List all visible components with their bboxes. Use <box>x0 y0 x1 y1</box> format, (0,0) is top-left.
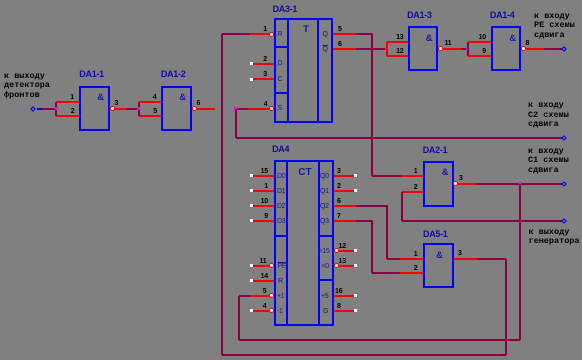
wire junction to DA3-1 S pin <box>237 108 249 110</box>
pin 2 wire DA5-1 <box>400 272 423 274</box>
junction DA1-3 input branch <box>385 47 388 50</box>
pin 1 wire DA5-1 <box>400 258 423 260</box>
and gate DA5-1 <box>423 243 454 288</box>
pin number 4 DA3-1 <box>246 101 268 108</box>
feedback wire down <box>519 184 521 340</box>
wire DA3-1 Q to DA2-1 input 1 <box>356 33 373 35</box>
output pin 8 wire DA1-4 <box>526 48 544 50</box>
pin number 1 DA3-1 <box>245 26 267 33</box>
pin number 4 DA4 <box>245 303 267 310</box>
pin number 3 DA1-1 <box>115 100 119 107</box>
pin number 2 DA5-1 <box>396 265 418 272</box>
wire DA4 Q3 to DA5-1 input 2 <box>356 220 373 222</box>
pin 5 wire DA1-2 <box>139 115 162 117</box>
pin 1 wire DA2-1 <box>401 175 423 177</box>
counter DA4 <box>274 160 334 326</box>
pin 9 wire DA1-4 <box>468 55 490 57</box>
pin number 13 DA4 <box>339 258 346 265</box>
pin 2 wire DA2-1 <box>402 191 423 193</box>
pin 6 Q2 wire DA4 <box>334 205 356 207</box>
vertical rail x=505.5 up to DA5-1 output <box>505 259 507 355</box>
nand gate DA1-4 <box>491 26 522 71</box>
pin number 5 DA1-2 <box>135 108 157 115</box>
pin number 15 DA4 <box>246 168 268 175</box>
pin 4 wire DA1-2 <box>139 101 162 103</box>
T flip-flop DA3-1 <box>274 18 334 123</box>
output bubble DA1-2 pin 6 <box>192 106 197 111</box>
pin 13 <0 stub DA4 <box>334 263 339 268</box>
node label: к входу PE схемы сдвига <box>534 12 575 41</box>
pin 11 PE stub DA4 <box>250 264 253 267</box>
pin number 9 DA4 <box>246 213 268 220</box>
junction at DA1-1 input branch <box>55 107 58 110</box>
pin 8 G stub DA4 <box>334 310 354 312</box>
C1 terminal lead <box>561 183 563 185</box>
pin number 14 DA4 <box>246 273 268 280</box>
pin number 2 DA1-1 <box>53 108 75 115</box>
pin 10 D2 stub DA4 <box>250 204 253 207</box>
terminal к выходу генератора <box>561 218 567 224</box>
output pin 6 wire DA1-2 <box>197 108 216 110</box>
pin number 12 DA1-3 <box>382 48 404 55</box>
pin 13 wire DA1-3 <box>387 41 408 43</box>
input branch wire DA1-3 <box>386 42 388 57</box>
terminal к входу С1 схемы сдвига <box>561 181 567 187</box>
node label: к выходу генератора <box>529 228 580 247</box>
pin 7 Q3 wire DA4 <box>334 220 357 222</box>
output bubble DA2-1 pin 3 <box>453 181 458 186</box>
wire DA1-3 output to DA1-4 input branch <box>461 48 466 50</box>
node label: к входу С1 схемы сдвига <box>528 147 569 176</box>
pin 9 D3 stub DA4 <box>250 219 253 222</box>
nand gate DA1-2 <box>161 86 192 132</box>
nand gate DA1-3 <box>408 26 439 71</box>
pin number 1 DA2-1 <box>396 168 418 175</box>
pin number 1 DA1-1 <box>52 94 74 101</box>
pin 1 R wire DA3-1 <box>269 32 274 37</box>
input branch wire DA1-4 <box>467 42 469 57</box>
node label: к выходу детектора фронтов <box>4 72 50 101</box>
junction C1 / +1 feedback <box>519 182 522 185</box>
wire DA1-4 output to PE terminal <box>544 48 561 50</box>
wire DA2-1 output to C1 terminal and DA4 +1 <box>476 183 519 185</box>
pin 1 D1 stub DA4 <box>250 189 253 192</box>
pin number 11 DA1-3 <box>445 40 452 47</box>
pin number 6 DA1-2 <box>197 100 201 107</box>
wire DA5-1 output to right rail <box>477 258 506 260</box>
feedback wire up to DA4 +1 <box>238 296 240 341</box>
output pin 3 wire DA1-1 <box>115 108 126 110</box>
bottom wire y=354.5 <box>222 354 506 356</box>
pin 16 +5 stub DA4 <box>334 295 354 297</box>
pin 12 wire DA1-3 <box>387 55 408 57</box>
wire DA3-1 R to left rail <box>222 33 250 35</box>
pin number 10 DA4 <box>246 198 268 205</box>
output bubble DA1-3 pin 11 <box>438 46 443 51</box>
pin number 6 DA3-1 <box>338 41 342 48</box>
wire DA1-1 output to DA1-2 inputs <box>126 108 138 110</box>
output bubble DA1-4 pin 8 <box>521 46 526 51</box>
terminal lead blue <box>37 108 43 110</box>
feedback wire bottom y=340 <box>239 339 521 341</box>
pin 3 Q0 stub DA4 <box>334 175 354 177</box>
pin 2 D stub DA3-1 <box>250 62 253 65</box>
pin number 1 DA5-1 <box>396 251 418 258</box>
pin number 1 DA4 <box>246 183 268 190</box>
pin 4 -1 stub DA4 <box>250 309 253 312</box>
C2 terminal lead <box>561 137 563 139</box>
nand gate DA2-1 <box>423 161 454 207</box>
pin 3 C stub DA3-1 <box>250 78 253 81</box>
terminal к входу С2 схемы сдвига <box>561 135 567 141</box>
pin number 6 DA4 <box>337 198 341 205</box>
pin 5 +1 wire DA4 <box>239 295 251 297</box>
pin number 8 DA1-4 <box>526 40 530 47</box>
junction at DA1-2 input branch <box>137 107 140 110</box>
pin 6 Qbar output wire DA3-1 <box>333 48 356 50</box>
wire to C2 terminal <box>236 137 561 139</box>
pin number 3 DA5-1 <box>458 250 462 257</box>
wire DA3-1 Qbar to DA1-3 input branch <box>356 48 386 50</box>
pin number 2 DA3-1 <box>245 56 267 63</box>
input terminal к выходу детектора фронтов <box>30 106 36 112</box>
terminal к входу PE схемы сдвига <box>561 46 567 52</box>
pin number 3 DA2-1 <box>459 175 463 182</box>
pin number 4 DA1-2 <box>135 94 157 101</box>
pin number 12 DA4 <box>339 243 346 250</box>
pin number 2 DA2-1 <box>396 184 418 191</box>
pin number 7 DA4 <box>337 213 341 220</box>
pin number 3 DA3-1 <box>245 71 267 78</box>
nand gate DA1-1 <box>79 86 110 132</box>
pin number 2 DA4 <box>337 183 341 190</box>
junction DA1-2 output / S / C2 <box>234 107 237 110</box>
pin number 5 DA3-1 <box>338 26 342 33</box>
pin number 10 DA1-4 <box>464 34 486 41</box>
input branch wire DA1-2 <box>138 102 140 117</box>
pin 2 Q1 stub DA4 <box>334 190 354 192</box>
output pin 3 wire DA2-1 <box>458 183 476 185</box>
pin number 3 DA4 <box>337 168 341 175</box>
junction DA1-4 input branch <box>466 47 469 50</box>
wire terminal to DA1-1 inputs <box>42 108 55 110</box>
wire DA4 Q2 to DA5-1 input 1 <box>356 205 388 207</box>
pin 5 Q output wire DA3-1 <box>333 33 356 35</box>
input branch wire DA1-1 <box>55 102 57 117</box>
pin 14 R stub DA4 <box>250 279 253 282</box>
pin number 5 DA4 <box>245 288 267 295</box>
pin number 16 DA4 <box>335 288 342 295</box>
wire down to C2 line <box>235 109 237 138</box>
PE terminal lead <box>561 48 563 50</box>
pin 1 wire DA1-1 <box>56 101 79 103</box>
output pin 11 wire DA1-3 <box>443 48 462 50</box>
vertical rail x=222 down to bottom <box>221 34 223 355</box>
pin number 9 DA1-4 <box>464 48 486 55</box>
wire generator terminal to DA2-1 input 2 <box>401 192 403 222</box>
pin 4 S wire DA3-1 <box>269 106 274 111</box>
pin 2 wire DA1-1 <box>56 115 79 117</box>
pin 12 >15 stub DA4 <box>334 248 339 253</box>
output pin 3 wire DA5-1 <box>454 258 477 260</box>
output bubble DA1-1 pin 3 <box>110 106 115 111</box>
pin 10 wire DA1-4 <box>468 41 490 43</box>
pin 15 D0 stub DA4 <box>250 174 253 177</box>
pin number 8 DA4 <box>337 303 341 310</box>
node label: к входу С2 схемы сдвига <box>528 101 569 130</box>
pin number 11 DA4 <box>245 258 267 265</box>
generator terminal lead <box>561 220 563 222</box>
pin number 13 DA1-3 <box>382 34 404 41</box>
